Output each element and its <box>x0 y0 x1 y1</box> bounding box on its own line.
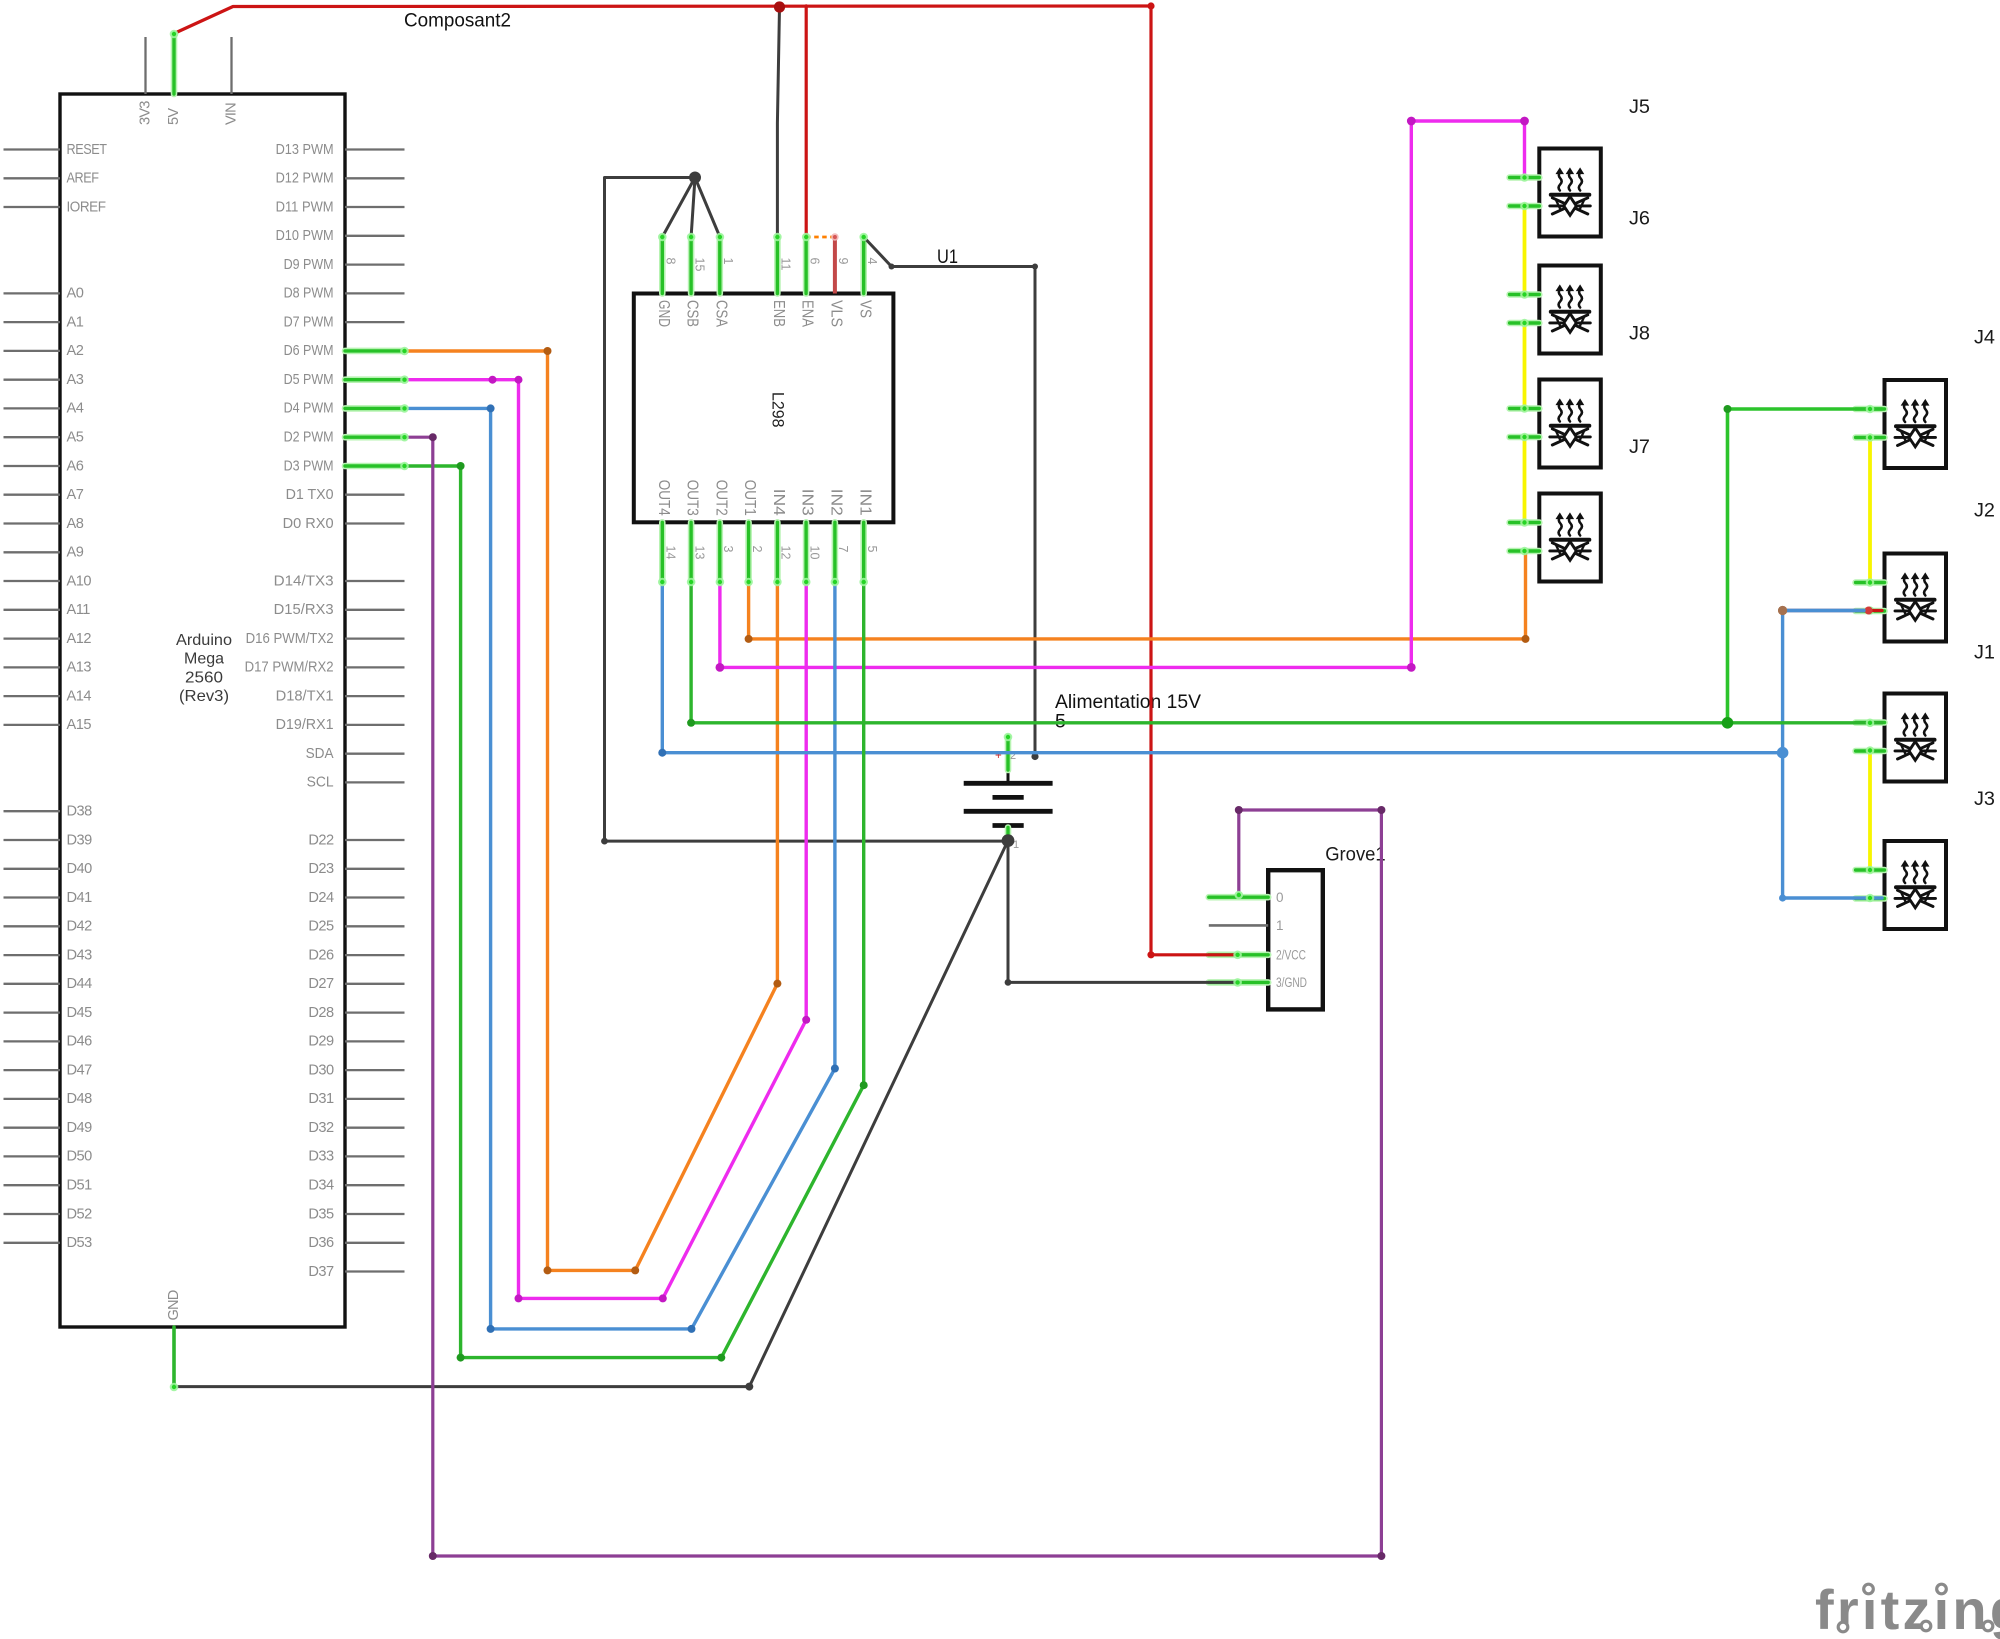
svg-text:D11 PWM: D11 PWM <box>276 199 334 215</box>
svg-text:SDA: SDA <box>306 746 334 762</box>
svg-text:D46: D46 <box>67 1034 93 1050</box>
svg-text:13: 13 <box>692 546 706 560</box>
svg-text:A2: A2 <box>67 343 84 359</box>
svg-text:D4 PWM: D4 PWM <box>284 401 334 417</box>
svg-text:D36: D36 <box>308 1235 334 1251</box>
svg-text:D27: D27 <box>308 976 334 992</box>
svg-text:J7: J7 <box>1629 437 1650 458</box>
svg-text:2/VCC: 2/VCC <box>1276 947 1306 962</box>
svg-text:A8: A8 <box>67 516 84 532</box>
svg-text:A6: A6 <box>67 458 84 474</box>
svg-text:D47: D47 <box>67 1062 93 1078</box>
svg-text:0: 0 <box>1276 890 1284 905</box>
svg-text:VLS: VLS <box>828 300 845 327</box>
svg-text:9: 9 <box>836 258 850 265</box>
svg-text:D40: D40 <box>67 861 93 877</box>
svg-text:A9: A9 <box>67 545 84 561</box>
svg-text:D28: D28 <box>308 1005 334 1021</box>
svg-text:D6 PWM: D6 PWM <box>284 343 334 359</box>
svg-text:D23: D23 <box>308 861 334 877</box>
svg-text:OUT1: OUT1 <box>741 480 758 516</box>
svg-text:10: 10 <box>807 546 821 560</box>
svg-text:IN1: IN1 <box>856 489 873 516</box>
svg-text:J5: J5 <box>1629 97 1650 118</box>
svg-text:D24: D24 <box>308 890 334 906</box>
svg-text:3V3: 3V3 <box>137 101 153 125</box>
svg-text:D10 PWM: D10 PWM <box>276 228 334 244</box>
svg-text:Alimentation 15V: Alimentation 15V <box>1055 691 1201 713</box>
svg-text:A12: A12 <box>67 631 92 647</box>
svg-text:1: 1 <box>1276 918 1284 933</box>
svg-text:OUT2: OUT2 <box>712 480 729 516</box>
svg-text:ENB: ENB <box>770 300 787 327</box>
svg-text:J2: J2 <box>1974 501 1995 522</box>
svg-text:D30: D30 <box>308 1062 334 1078</box>
svg-text:J8: J8 <box>1629 324 1650 345</box>
svg-text:D9 PWM: D9 PWM <box>284 257 334 273</box>
svg-text:SCL: SCL <box>307 775 334 791</box>
svg-text:3: 3 <box>721 546 735 553</box>
svg-text:5V: 5V <box>166 108 182 125</box>
svg-text:D48: D48 <box>67 1091 93 1107</box>
svg-text:6: 6 <box>807 258 821 265</box>
svg-text:D3 PWM: D3 PWM <box>284 458 334 474</box>
svg-text:Composant2: Composant2 <box>404 9 511 31</box>
svg-text:A1: A1 <box>67 314 84 330</box>
svg-text:D2 PWM: D2 PWM <box>284 430 334 446</box>
svg-text:7: 7 <box>836 546 850 553</box>
svg-text:D39: D39 <box>67 832 93 848</box>
svg-text:L298: L298 <box>769 392 788 428</box>
svg-text:12: 12 <box>779 546 793 560</box>
svg-text:GND: GND <box>655 300 672 327</box>
svg-text:D26: D26 <box>308 947 334 963</box>
svg-text:Mega: Mega <box>184 651 224 668</box>
svg-text:D38: D38 <box>67 804 93 820</box>
svg-text:D45: D45 <box>67 1005 93 1021</box>
svg-text:OUT3: OUT3 <box>684 480 701 516</box>
svg-text:GND: GND <box>166 1290 182 1320</box>
svg-text:VS: VS <box>856 300 873 318</box>
svg-text:8: 8 <box>664 258 678 265</box>
svg-text:A10: A10 <box>67 573 92 589</box>
svg-text:D14/TX3: D14/TX3 <box>274 573 334 589</box>
svg-text:D35: D35 <box>308 1206 334 1222</box>
svg-text:D52: D52 <box>67 1206 93 1222</box>
svg-text:IN2: IN2 <box>828 489 845 516</box>
svg-text:2560: 2560 <box>185 669 223 686</box>
svg-text:D12 PWM: D12 PWM <box>276 171 334 187</box>
svg-text:A13: A13 <box>67 660 92 676</box>
svg-text:D42: D42 <box>67 919 93 935</box>
svg-text:D32: D32 <box>308 1120 334 1136</box>
svg-text:D5 PWM: D5 PWM <box>284 372 334 388</box>
svg-text:5: 5 <box>865 546 879 553</box>
svg-text:ENA: ENA <box>799 300 816 327</box>
svg-text:D16 PWM/TX2: D16 PWM/TX2 <box>246 631 334 647</box>
svg-text:Grove1: Grove1 <box>1325 845 1386 866</box>
svg-text:IN4: IN4 <box>770 489 787 516</box>
svg-text:D7 PWM: D7 PWM <box>284 314 334 330</box>
svg-text:A0: A0 <box>67 286 84 302</box>
svg-text:RESET: RESET <box>67 142 108 158</box>
svg-text:D31: D31 <box>308 1091 334 1107</box>
svg-text:D15/RX3: D15/RX3 <box>274 602 334 618</box>
svg-text:D41: D41 <box>67 890 93 906</box>
svg-text:OUT4: OUT4 <box>655 480 672 516</box>
svg-text:15: 15 <box>692 258 706 272</box>
svg-text:2: 2 <box>750 546 764 553</box>
svg-text:J4: J4 <box>1974 328 1995 349</box>
svg-text:D29: D29 <box>308 1034 334 1050</box>
svg-text:4: 4 <box>865 258 879 265</box>
svg-text:A7: A7 <box>67 487 84 503</box>
svg-text:A4: A4 <box>67 401 84 417</box>
svg-text:D1 TX0: D1 TX0 <box>286 487 334 503</box>
svg-text:D37: D37 <box>308 1264 334 1280</box>
svg-text:Arduino: Arduino <box>176 632 232 649</box>
svg-text:D43: D43 <box>67 947 93 963</box>
svg-text:A3: A3 <box>67 372 84 388</box>
svg-text:AREF: AREF <box>67 171 100 187</box>
svg-text:D13 PWM: D13 PWM <box>276 142 334 158</box>
svg-text:A15: A15 <box>67 717 92 733</box>
svg-text:A5: A5 <box>67 430 84 446</box>
svg-text:D53: D53 <box>67 1235 93 1251</box>
svg-text:U1: U1 <box>937 247 958 268</box>
svg-text:D44: D44 <box>67 976 93 992</box>
svg-text:D8 PWM: D8 PWM <box>284 286 334 302</box>
svg-text:CSB: CSB <box>684 300 701 327</box>
svg-text:D33: D33 <box>308 1149 334 1165</box>
svg-text:IN3: IN3 <box>799 489 816 516</box>
svg-text:VIN: VIN <box>223 103 239 125</box>
svg-text:D49: D49 <box>67 1120 93 1136</box>
svg-text:CSA: CSA <box>712 300 729 327</box>
svg-text:11: 11 <box>779 258 793 271</box>
svg-text:J1: J1 <box>1974 643 1995 664</box>
svg-text:D25: D25 <box>308 919 334 935</box>
svg-text:3/GND: 3/GND <box>1276 975 1307 990</box>
svg-text:J3: J3 <box>1974 789 1995 810</box>
svg-text:A14: A14 <box>67 688 92 704</box>
svg-text:D50: D50 <box>67 1149 93 1165</box>
svg-text:D22: D22 <box>308 832 334 848</box>
svg-text:D17 PWM/RX2: D17 PWM/RX2 <box>245 660 334 676</box>
svg-text:D51: D51 <box>67 1178 93 1194</box>
svg-text:J6: J6 <box>1629 209 1650 230</box>
svg-text:14: 14 <box>664 546 678 560</box>
svg-text:A11: A11 <box>67 602 91 618</box>
svg-text:IOREF: IOREF <box>67 199 107 215</box>
svg-text:(Rev3): (Rev3) <box>179 688 229 705</box>
svg-text:D0 RX0: D0 RX0 <box>283 516 334 532</box>
svg-text:D34: D34 <box>308 1178 334 1194</box>
svg-text:D18/TX1: D18/TX1 <box>276 688 334 704</box>
svg-text:1: 1 <box>721 258 735 265</box>
svg-text:D19/RX1: D19/RX1 <box>276 717 334 733</box>
